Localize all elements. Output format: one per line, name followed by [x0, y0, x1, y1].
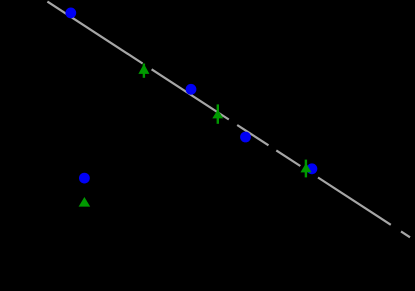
data point B1 (blue circle)	[65, 7, 76, 18]
legend marker blue circle	[79, 173, 90, 184]
error bar E3	[305, 160, 307, 178]
fit line segment C2	[318, 178, 391, 225]
error bar E2	[217, 104, 219, 123]
data point B2 (blue circle)	[186, 84, 197, 95]
data point G2 (green triangle)	[212, 110, 223, 119]
data point G1 (green triangle)	[138, 64, 149, 74]
data point G3 (green triangle)	[301, 163, 312, 172]
fit line segment B	[237, 125, 268, 145]
fit line segment A2	[152, 69, 229, 119]
fit line segment A1	[47, 2, 142, 64]
data point B4 (blue circle)	[307, 163, 318, 174]
data point B3 (blue circle)	[240, 132, 251, 143]
fit line segment D	[401, 231, 410, 237]
fit line segment C1	[276, 150, 300, 166]
legend marker green triangle	[79, 197, 91, 207]
error bar E1	[143, 64, 145, 78]
